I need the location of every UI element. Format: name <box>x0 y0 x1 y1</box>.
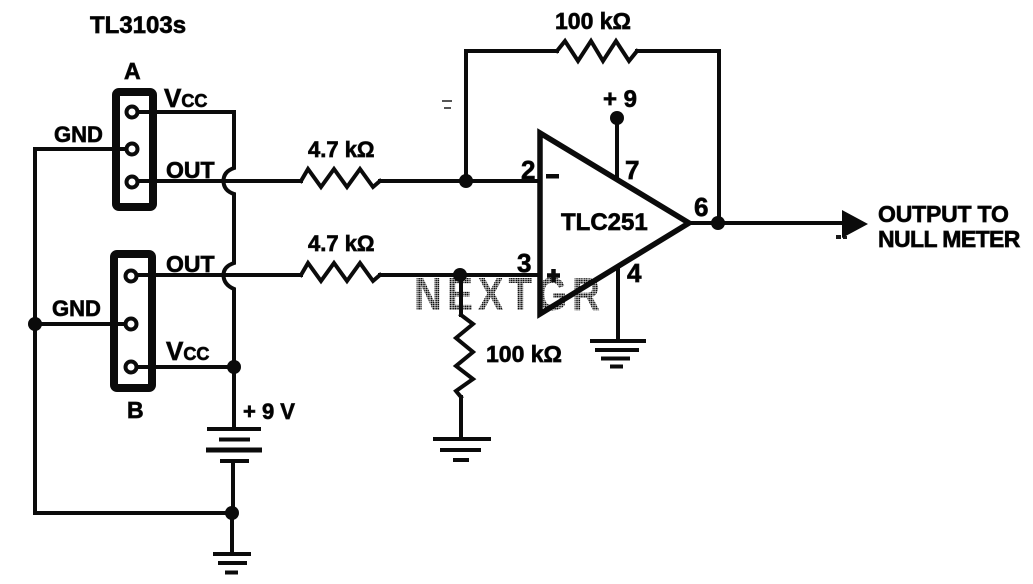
svg-text:4: 4 <box>627 258 642 288</box>
resistor R1 4.7k zigzag <box>301 169 380 187</box>
svg-text:4.7 kΩ: 4.7 kΩ <box>308 137 375 162</box>
svg-text:OUT: OUT <box>166 157 215 183</box>
connector B pin OUT <box>126 271 137 282</box>
junction node output pin6 <box>711 216 725 230</box>
connector B pin GND <box>126 319 137 330</box>
resistor R2 4.7k zigzag <box>301 263 380 281</box>
wire B-GND to left rail <box>35 322 131 326</box>
svg-text:4.7 kΩ: 4.7 kΩ <box>308 231 375 256</box>
label op-amp minus input <box>546 174 559 179</box>
junction node pin3 <box>453 268 467 282</box>
svg-text:OUTPUT TO: OUTPUT TO <box>878 201 1009 227</box>
wire +9 supply to pin 7 <box>615 122 619 178</box>
svg-text:+ 9: + 9 <box>603 86 637 113</box>
junction node battery negative <box>225 506 239 520</box>
wire battery bottom to negative node <box>231 463 235 513</box>
op-amp U1 TLC251 <box>540 133 689 314</box>
junction node B VCC / battery <box>227 360 241 374</box>
wire negative node to ground <box>230 513 234 552</box>
wire pin 4 to ground <box>616 267 620 339</box>
svg-text:7: 7 <box>625 155 639 185</box>
connector B body <box>114 254 152 388</box>
junction node pin2 <box>459 174 473 188</box>
wire R2 to op-amp pin 3 <box>380 273 538 277</box>
junction node GND rail <box>28 317 42 331</box>
svg-text:2: 2 <box>521 155 535 185</box>
wire output to arrow <box>689 221 845 225</box>
wire R1 to op-amp pin 2 <box>380 179 538 183</box>
wire B-VCC to battery node <box>131 365 234 369</box>
svg-text:GND: GND <box>54 122 103 147</box>
svg-text:+ 9 V: + 9 V <box>243 399 295 424</box>
connector A body <box>116 92 153 207</box>
connector B pin VCC <box>126 362 137 373</box>
battery BT1 plates <box>206 429 262 461</box>
svg-text:GND: GND <box>52 296 101 321</box>
connector A pin OUT <box>127 177 138 188</box>
wire R4 to ground <box>459 397 463 437</box>
svg-text:100 kΩ: 100 kΩ <box>486 341 562 367</box>
ground G2 (100k resistor) <box>433 439 491 460</box>
wire A-GND to left rail <box>35 147 132 151</box>
wire pin3 node to R4 <box>459 275 463 315</box>
svg-text:OUT: OUT <box>166 251 215 277</box>
label op-amp plus input <box>547 269 560 282</box>
svg-text:100 kΩ: 100 kΩ <box>555 8 631 34</box>
wire A-VCC to battery node (vertical with crossover hops) <box>136 112 234 367</box>
wire feedback right (top to output node) <box>637 51 719 223</box>
output arrowhead <box>842 210 868 238</box>
svg-text:3: 3 <box>517 248 531 278</box>
svg-text:NULL METER: NULL METER <box>878 226 1021 252</box>
wire B-OUT to R2 <box>131 273 301 277</box>
svg-text:TLC251: TLC251 <box>561 209 648 236</box>
svg-text:B: B <box>127 397 144 423</box>
svg-text:A: A <box>124 58 141 84</box>
ground G3 (battery) <box>213 554 251 573</box>
terminal dot +9 supply <box>610 111 624 125</box>
connector A pin GND <box>127 144 138 155</box>
wire A-OUT to R1 <box>132 179 301 183</box>
wire feedback left (node to top) <box>466 51 557 181</box>
svg-text:6: 6 <box>694 192 708 222</box>
wire battery node to battery top <box>232 367 236 427</box>
resistor R3 100k feedback zigzag <box>557 41 637 61</box>
ground G1 (op-amp pin 4) <box>590 341 646 367</box>
resistor R4 100k vertical zigzag <box>456 315 473 397</box>
connector A pin VCC <box>127 107 138 118</box>
wire left ground rail <box>35 149 232 513</box>
svg-text:TL3103s: TL3103s <box>90 12 186 39</box>
